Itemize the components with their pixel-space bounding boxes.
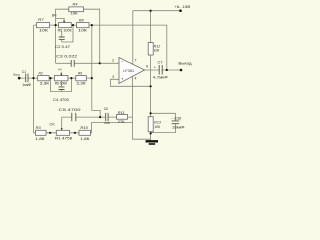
node supply terminal — [174, 5, 190, 12]
potentiometer R5 — [58, 21, 73, 33]
svg-text:6: 6 — [146, 65, 148, 69]
svg-text:3,3К: 3,3К — [76, 82, 86, 86]
wire op-amp pin3 to bias — [110, 79, 150, 86]
pin 2 — [112, 58, 114, 62]
capacitor C4 — [53, 87, 69, 102]
svg-text:R6 100К: R6 100К — [55, 82, 68, 86]
node C5 junction — [99, 116, 101, 118]
capacitor C6 — [104, 107, 110, 125]
svg-text:C4 4700: C4 4700 — [53, 98, 69, 102]
svg-text:3,3К: 3,3К — [40, 82, 50, 86]
svg-text:НЧ: НЧ — [58, 68, 61, 72]
svg-text:- С8: - С8 — [171, 117, 181, 121]
resistor R9 — [76, 71, 87, 85]
wire bass to C5 jog — [92, 78, 100, 117]
svg-text:R1 475К: R1 475К — [55, 137, 74, 141]
node input junction — [32, 77, 34, 79]
capacitor C7 — [153, 61, 168, 80]
wire output row — [144, 69, 181, 71]
wire C2 loop — [62, 25, 73, 42]
node VCh label — [52, 13, 57, 17]
node output junction — [166, 69, 168, 71]
op-amp U1 LF351 — [119, 58, 145, 84]
wire bottom row — [46, 123, 133, 133]
node input terminal — [14, 72, 21, 79]
resistor R12 — [148, 43, 160, 55]
node supply junction — [150, 10, 152, 12]
capacitor C1 — [22, 70, 32, 87]
svg-text:7: 7 — [135, 58, 137, 62]
svg-text:C6: C6 — [104, 107, 108, 111]
resistor R13 — [148, 117, 161, 132]
svg-text:4,7мкФ: 4,7мкФ — [153, 75, 168, 79]
potentiometer R6 — [54, 74, 68, 86]
svg-text:+6...15В: +6...15В — [174, 5, 190, 9]
svg-text:3: 3 — [112, 75, 114, 79]
svg-text:1000: 1000 — [104, 121, 110, 125]
resistor R8 — [77, 18, 90, 32]
svg-text:10К: 10К — [39, 29, 49, 33]
svg-text:1,8К: 1,8К — [35, 137, 45, 141]
svg-text:C5 4700: C5 4700 — [59, 108, 81, 112]
svg-text:33мкФ: 33мкФ — [172, 126, 184, 130]
capacitor C5 — [59, 108, 81, 121]
wire op-amp pin4 column — [133, 77, 151, 140]
svg-text:1мкФ: 1мкФ — [22, 83, 31, 87]
wire feedback drop to output — [166, 25, 168, 70]
ground — [146, 140, 158, 145]
svg-text:СЧ: СЧ — [50, 122, 55, 126]
svg-text:R13: R13 — [154, 120, 161, 124]
resistor R7 — [37, 18, 50, 33]
node R3 right junction — [49, 132, 51, 134]
wire C5 C6 R11 row — [62, 116, 133, 118]
svg-text:Вход: Вход — [14, 72, 20, 76]
node bass right junction — [91, 77, 93, 79]
node treble mid junction — [72, 24, 74, 26]
svg-text:10К: 10К — [78, 29, 88, 33]
wire C4 loop — [51, 78, 72, 91]
svg-text:2: 2 — [112, 58, 114, 62]
wire bias column — [150, 11, 152, 141]
svg-text:LF351: LF351 — [123, 69, 134, 73]
wire inverting input row — [56, 62, 119, 64]
svg-text:R9: R9 — [78, 71, 82, 75]
svg-text:R8: R8 — [79, 18, 84, 22]
wire input column — [34, 25, 36, 133]
svg-text:С1: С1 — [22, 70, 26, 74]
pin 6 — [146, 65, 148, 69]
svg-text:ВЧ: ВЧ — [52, 13, 57, 17]
svg-text:R10: R10 — [80, 126, 88, 130]
node R2 right junction — [49, 77, 51, 79]
resistor R11 — [117, 111, 128, 124]
svg-text:C3 0.022: C3 0.022 — [56, 55, 77, 59]
wire C5 to R1 wiper — [61, 117, 63, 129]
svg-text:10К: 10К — [154, 49, 160, 53]
wire treble row — [34, 24, 167, 26]
node NCh label — [58, 68, 61, 72]
node bias pin3 junction — [150, 85, 152, 87]
capacitor C3 — [56, 55, 77, 67]
wire treble-bass right column — [91, 25, 93, 78]
pin 7 — [135, 58, 137, 62]
node treble right junction — [91, 24, 93, 26]
wire C8 loop — [151, 113, 176, 132]
node SCh label — [50, 122, 55, 126]
svg-text:R4: R4 — [73, 2, 78, 6]
resistor R4 — [69, 2, 84, 15]
svg-text:C2 0.47: C2 0.47 — [55, 45, 70, 49]
resistor R2 — [38, 71, 51, 85]
wire op-amp pin7 column — [132, 11, 134, 64]
svg-text:10К: 10К — [71, 11, 79, 15]
potentiometer R1 — [55, 128, 74, 140]
svg-text:10К: 10К — [154, 125, 160, 129]
svg-text:Выход: Выход — [178, 61, 192, 65]
node R13 bottom junction — [150, 132, 152, 134]
svg-text:R11: R11 — [118, 111, 125, 115]
svg-text:1,8К: 1,8К — [80, 137, 90, 141]
capacitor C8 — [171, 117, 185, 130]
node R1 right junction — [74, 132, 76, 134]
wire R5 wiper jog — [56, 18, 65, 21]
wire supply rail — [133, 10, 181, 12]
wire R6 wiper stub — [60, 72, 62, 74]
node output terminal — [178, 61, 192, 71]
pin 4 — [134, 76, 136, 80]
pin 3 — [112, 75, 114, 79]
svg-text:4: 4 — [134, 76, 136, 80]
node R4-C3 junction — [99, 62, 101, 64]
svg-text:R2: R2 — [39, 71, 43, 75]
svg-text:R3: R3 — [36, 126, 41, 130]
node bias C8 junction — [150, 112, 152, 114]
wire input row — [19, 77, 92, 79]
svg-text:27К: 27К — [118, 120, 126, 124]
node treble left junction — [55, 24, 57, 26]
resistor R3 — [35, 126, 46, 141]
capacitor C2 — [55, 37, 70, 49]
svg-text:С7: С7 — [158, 61, 163, 65]
node R6 right junction — [70, 77, 72, 79]
wire R4 right leg — [84, 9, 100, 63]
wire R4 left leg — [56, 9, 69, 63]
svg-text:R5 100К: R5 100К — [58, 29, 73, 33]
resistor R10 — [79, 126, 91, 141]
